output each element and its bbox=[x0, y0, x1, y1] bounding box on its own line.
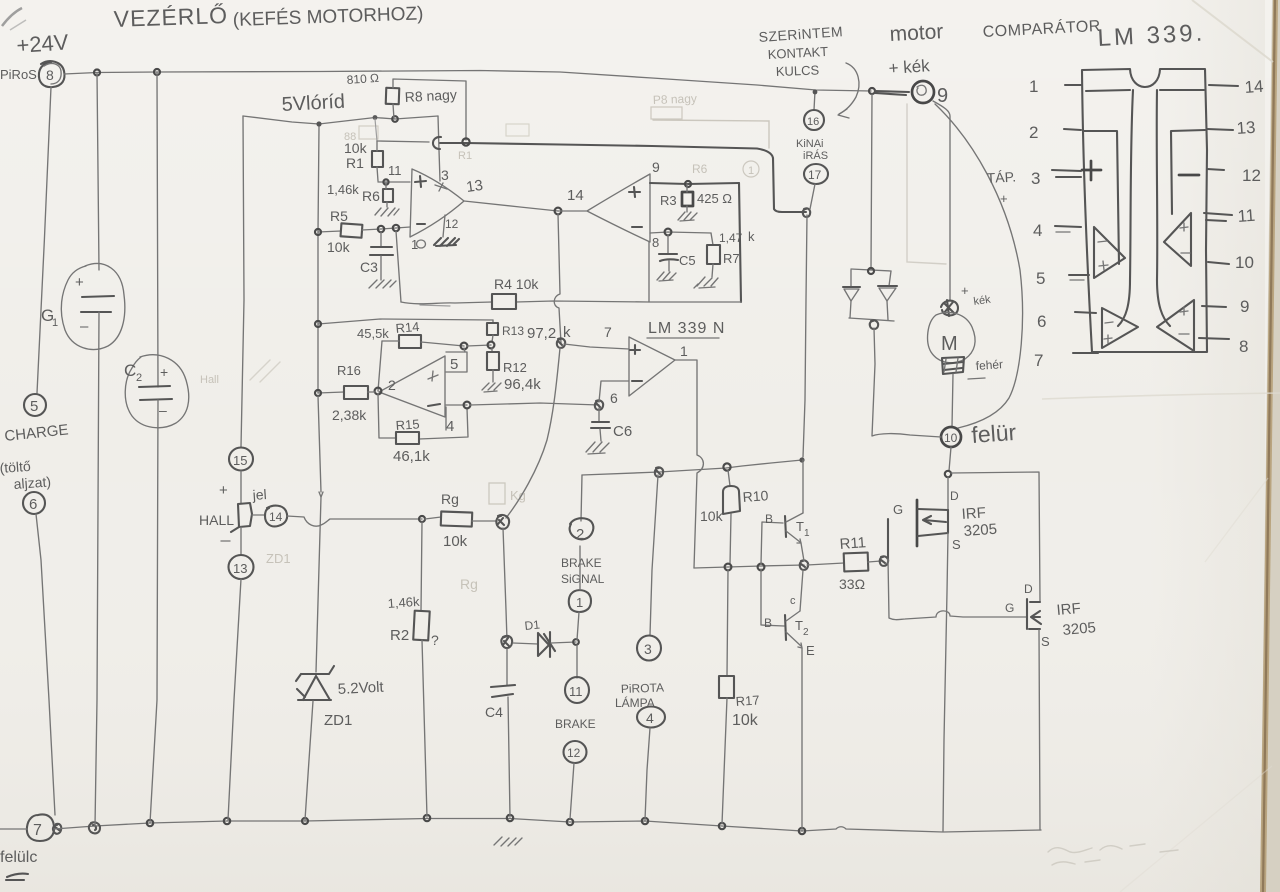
svg-text:2: 2 bbox=[388, 377, 396, 393]
svg-text:3205: 3205 bbox=[1062, 619, 1097, 639]
paper right edge band bbox=[1260, 0, 1280, 892]
pin 8 dash bbox=[1199, 338, 1229, 339]
svg-text:SiGNAL: SiGNAL bbox=[561, 572, 605, 586]
wire terminal 10 down to drain node bbox=[949, 447, 951, 471]
wire R5 to op1 - input bbox=[362, 227, 410, 230]
ground under C4 at bottom rail bbox=[494, 837, 522, 846]
terminal 1 bbox=[569, 590, 591, 612]
wire 5V left edge down to terminal 15 bbox=[241, 116, 244, 447]
resistor R10 bbox=[728, 470, 730, 486]
node R3 top bbox=[685, 181, 691, 187]
IC big minus pin12 bbox=[1179, 174, 1199, 177]
wire key line (heavy) from R1 top to right bbox=[377, 141, 429, 142]
node x318 y324 bbox=[315, 321, 321, 327]
bridge bottom edge bbox=[849, 318, 894, 321]
svg-text:B: B bbox=[764, 616, 772, 630]
svg-text:+: + bbox=[160, 364, 168, 380]
IC inner right column bbox=[1171, 130, 1205, 214]
pin 2 dash bbox=[1064, 129, 1081, 130]
wire y319 rail from x318 to R13 bbox=[318, 319, 493, 324]
node bottom x645 bbox=[642, 818, 648, 824]
svg-text:11: 11 bbox=[388, 163, 402, 178]
wire battery G1 down to bottom rail bbox=[95, 312, 99, 826]
svg-text:810 Ω: 810 Ω bbox=[346, 71, 379, 87]
node blob right of terminal 7 bbox=[53, 824, 61, 834]
terminal 7 bbox=[27, 814, 54, 841]
wire hall signal with dip under x318 bbox=[287, 516, 422, 526]
wire terminal15 to HALL bbox=[240, 471, 242, 503]
svg-text:iRÁS: iRÁS bbox=[803, 149, 828, 162]
MOSFET Q2 body arrow bbox=[1031, 611, 1041, 624]
svg-text:R8 nagy: R8 nagy bbox=[404, 86, 457, 105]
svg-text:14: 14 bbox=[269, 510, 283, 524]
svg-text:PiROTA: PiROTA bbox=[621, 681, 665, 696]
svg-text:14: 14 bbox=[567, 187, 584, 204]
node op1 output bbox=[555, 208, 562, 215]
svg-text:6: 6 bbox=[29, 496, 37, 513]
pin 13 dash bbox=[1207, 129, 1233, 130]
wire op U1c output to C6 node bbox=[446, 404, 467, 406]
wire R2 to bottom rail bbox=[422, 640, 427, 817]
svg-text:+: + bbox=[219, 482, 228, 499]
wire block top edge (pin9 input) bbox=[650, 183, 739, 184]
node bottom x510 bbox=[507, 815, 513, 821]
svg-text:12: 12 bbox=[567, 746, 581, 760]
wire Q1 source down to bottom rail bbox=[943, 533, 948, 831]
svg-text:+: + bbox=[1000, 191, 1008, 206]
svg-text:8: 8 bbox=[652, 235, 659, 250]
resistor R8 bbox=[386, 88, 400, 104]
node y460 x802 bbox=[799, 457, 804, 462]
resistor R4 bbox=[492, 294, 516, 309]
svg-text:33Ω: 33Ω bbox=[839, 576, 865, 592]
MOSFET Q2 source stub bbox=[1029, 628, 1040, 630]
svg-text:R11: R11 bbox=[839, 534, 867, 553]
pin 10 dash bbox=[1208, 262, 1229, 264]
svg-text:+ kék: + kék bbox=[888, 56, 931, 78]
svg-text:8: 8 bbox=[1239, 337, 1248, 356]
svg-text:17: 17 bbox=[808, 168, 822, 182]
svg-text:felülc: felülc bbox=[0, 849, 37, 866]
wire HALL to terminal 14 bbox=[252, 514, 265, 516]
svg-text:10k: 10k bbox=[327, 239, 351, 255]
pin 1 dash bbox=[1065, 84, 1081, 86]
node y472 x659 bbox=[655, 467, 663, 477]
svg-text:LM 339 N: LM 339 N bbox=[648, 320, 725, 337]
IC big plus pin3 bbox=[1082, 161, 1101, 180]
wire terminal1 to D1 node to terminal 11 bbox=[577, 546, 580, 678]
svg-text:4: 4 bbox=[646, 710, 654, 726]
IC inner crossbar right bbox=[1160, 89, 1204, 91]
terminal 14 bbox=[265, 506, 287, 527]
svg-text:G: G bbox=[893, 502, 903, 517]
resistor R11 bbox=[807, 563, 844, 565]
battery C2 outline bbox=[125, 355, 189, 428]
pin4 stub bbox=[445, 407, 447, 430]
diode bridge top edge bbox=[851, 269, 891, 271]
wire Q2 source down to bottom rail corner bbox=[1039, 630, 1040, 830]
node bridge bottom bbox=[870, 320, 878, 329]
svg-text:PiRoS: PiRoS bbox=[0, 67, 37, 82]
battery C2 plates bbox=[139, 386, 170, 387]
transistor T2 base wire bbox=[761, 569, 784, 626]
wire node8 down to terminal 5 bbox=[37, 87, 51, 393]
pin 14 dash bbox=[1209, 85, 1238, 86]
svg-text:3: 3 bbox=[644, 641, 652, 657]
paper creases bbox=[1042, 393, 1280, 399]
IC comparator B triangle bbox=[1102, 308, 1138, 348]
svg-text:46,1k: 46,1k bbox=[393, 448, 430, 465]
wire R15 loop bbox=[378, 394, 468, 439]
svg-text:R6: R6 bbox=[692, 162, 708, 176]
svg-text:Hall: Hall bbox=[200, 374, 219, 386]
pin5 box bbox=[446, 352, 467, 372]
capacitor C4 bbox=[506, 649, 508, 685]
wire R14 loop top bbox=[382, 341, 464, 346]
diode D3 bbox=[878, 285, 897, 287]
ghost handwriting bottom right bbox=[1048, 848, 1092, 853]
wire +24V top rail bbox=[64, 71, 871, 92]
node 5V rail x375 bbox=[373, 115, 378, 120]
svg-text:45,5k: 45,5k bbox=[357, 326, 389, 341]
svg-text:R17: R17 bbox=[735, 692, 760, 709]
ground C5 bbox=[657, 272, 676, 281]
block left edge bbox=[648, 242, 650, 302]
wire R8 top loop to node x466 bbox=[393, 79, 466, 140]
svg-text:C: C bbox=[124, 361, 136, 380]
motor body bbox=[928, 312, 976, 362]
svg-text:R5: R5 bbox=[330, 208, 348, 224]
svg-text:+24V: +24V bbox=[16, 29, 70, 58]
op-amp U1a triangle bbox=[410, 169, 464, 237]
node R14 right / pin5 bbox=[461, 343, 468, 350]
node R13/R12 junction bbox=[488, 342, 495, 349]
node bottom x150 bbox=[147, 820, 153, 826]
node y567 x804 bbox=[800, 560, 808, 570]
IC comparator A triangle bbox=[1094, 227, 1125, 278]
svg-text:R1: R1 bbox=[458, 150, 472, 162]
svg-text:5.2Volt: 5.2Volt bbox=[337, 679, 385, 698]
battery G1 outline bbox=[61, 264, 125, 350]
svg-text:C3: C3 bbox=[360, 259, 378, 275]
svg-text:5: 5 bbox=[450, 356, 458, 373]
wire terminal 9 down to motor bbox=[933, 101, 950, 301]
svg-text:1: 1 bbox=[804, 528, 810, 539]
curved arrow bbox=[839, 63, 859, 114]
svg-text:KONTAKT: KONTAKT bbox=[767, 44, 828, 62]
svg-text:13: 13 bbox=[1236, 118, 1256, 138]
svg-text:5Vlóríd: 5Vlóríd bbox=[281, 91, 345, 116]
pin 7 dash bbox=[1073, 352, 1098, 354]
wire T1 collector up bbox=[802, 460, 804, 513]
wire key node down to T1 collector line bbox=[803, 215, 807, 457]
svg-text:6: 6 bbox=[1037, 312, 1046, 331]
IC body outline bbox=[1082, 69, 1207, 352]
bridge left edge bbox=[850, 270, 851, 318]
node 5V rail x395 (R8 bottom) bbox=[392, 116, 398, 122]
wire drain node right and down (Q2 drain) bbox=[951, 472, 1040, 601]
ghost wire near motor bbox=[907, 104, 946, 264]
resistor R5 bbox=[341, 223, 363, 237]
motor + brush bbox=[941, 300, 958, 316]
ground C3 bbox=[369, 280, 396, 288]
svg-text:KULCS: KULCS bbox=[776, 62, 820, 79]
svg-text:k: k bbox=[748, 229, 755, 244]
wire node to Q1 gate bbox=[887, 559, 889, 561]
ground R12 bbox=[482, 383, 501, 392]
svg-text:1: 1 bbox=[680, 343, 688, 359]
svg-text:R1: R1 bbox=[346, 155, 364, 171]
svg-text:S: S bbox=[952, 537, 961, 552]
paper top-right corner fold bbox=[1192, 0, 1273, 62]
svg-text:1: 1 bbox=[1029, 77, 1038, 96]
svg-text:Rg: Rg bbox=[460, 576, 478, 592]
node bottom x722 bbox=[719, 823, 725, 829]
svg-text:3205: 3205 bbox=[963, 521, 997, 540]
resistor R12 bbox=[491, 348, 493, 352]
svg-text:C5: C5 bbox=[679, 253, 696, 268]
wire rail tick to terminal 16 bbox=[814, 91, 815, 110]
wire op U1d output down with hop bbox=[675, 360, 703, 568]
svg-text:TÁP.: TÁP. bbox=[986, 168, 1016, 186]
op U1c plus sign bbox=[428, 371, 438, 381]
capacitor C3 bbox=[380, 232, 382, 246]
pin 5 dash bbox=[1069, 274, 1089, 276]
node y567 x728 bbox=[725, 564, 732, 571]
svg-text:10k: 10k bbox=[344, 140, 368, 156]
terminal 4 bbox=[637, 707, 665, 728]
terminal 11 bbox=[565, 677, 589, 703]
ground R3 bbox=[678, 212, 697, 221]
svg-text:jel: jel bbox=[251, 486, 267, 503]
svg-text:7: 7 bbox=[1034, 351, 1043, 370]
wire x318 to R5 bbox=[318, 231, 341, 232]
svg-text:T: T bbox=[796, 519, 804, 534]
wire T1 emitter down to node bbox=[801, 543, 804, 561]
svg-text:1: 1 bbox=[52, 317, 58, 329]
svg-text:10k: 10k bbox=[732, 712, 759, 729]
svg-text:12: 12 bbox=[445, 217, 459, 231]
svg-text:12: 12 bbox=[1242, 166, 1261, 185]
HALL sensor box bbox=[231, 503, 252, 532]
hop on key line over 5V vertical bbox=[433, 137, 441, 149]
IC inner left column bbox=[1084, 131, 1119, 264]
node C4/D1 bbox=[501, 636, 512, 648]
svg-text:Rg: Rg bbox=[441, 491, 459, 507]
wire Q1 gate loop down to Q2 gate with hop bbox=[888, 559, 1027, 620]
node C5 top bbox=[665, 229, 672, 236]
resistor R15 bbox=[396, 432, 419, 444]
ghost erased Rg label and box bbox=[489, 483, 505, 504]
wire x872 down to bridge bbox=[871, 94, 872, 269]
op-amp U1c triangle (points left) bbox=[379, 356, 445, 417]
svg-text:–: – bbox=[80, 318, 89, 335]
wire R14 left corner down to op apex bbox=[378, 341, 382, 391]
terminal 17 bbox=[804, 164, 828, 184]
svg-text:4: 4 bbox=[1033, 221, 1042, 240]
wire T2 emitter down to bottom rail bbox=[801, 648, 803, 831]
svg-text:(töltő: (töltő bbox=[0, 458, 31, 476]
svg-text:425 Ω: 425 Ω bbox=[697, 191, 732, 206]
op-amp U1a plus input sign bbox=[415, 176, 426, 187]
svg-text:–: – bbox=[159, 402, 167, 418]
svg-text:8: 8 bbox=[46, 67, 54, 83]
capacitor C6 bbox=[598, 408, 600, 421]
wire terminal17 to key line node bbox=[810, 184, 815, 209]
IC comparator C triangle bbox=[1164, 213, 1191, 266]
svg-text:9: 9 bbox=[1240, 297, 1249, 316]
svg-text:B: B bbox=[765, 512, 773, 526]
node Rg right (big) bbox=[496, 515, 509, 529]
wire brake vertical corner bbox=[581, 475, 582, 521]
ground C6 bbox=[586, 442, 609, 454]
svg-text:3: 3 bbox=[1031, 169, 1040, 188]
node rail x872 bbox=[869, 88, 875, 94]
node output U1c bbox=[464, 402, 471, 409]
terminal 5 bbox=[24, 394, 46, 416]
svg-text:D1: D1 bbox=[524, 617, 541, 633]
resistor R14 bbox=[399, 335, 421, 348]
svg-text:1,47: 1,47 bbox=[719, 231, 743, 245]
svg-text:c: c bbox=[790, 595, 796, 607]
battery G1 plates bbox=[82, 296, 114, 297]
resistor R7 bbox=[711, 233, 713, 245]
capacitor C5 bbox=[667, 235, 669, 253]
ground pin12 bbox=[434, 238, 459, 246]
svg-text:9: 9 bbox=[652, 159, 660, 175]
svg-text:BRAKE: BRAKE bbox=[555, 717, 596, 731]
resistor R1 bbox=[372, 151, 383, 167]
svg-text:R14: R14 bbox=[395, 319, 420, 336]
pin 9 dash bbox=[1202, 306, 1226, 307]
svg-text:11: 11 bbox=[569, 684, 583, 699]
resistor R17 bbox=[719, 676, 734, 698]
wire rail to terminal 9 (bold) bbox=[875, 91, 909, 95]
svg-text:BRAKE: BRAKE bbox=[561, 556, 602, 570]
op U1c minus sign bbox=[428, 404, 440, 406]
svg-text:aljzat): aljzat) bbox=[13, 473, 51, 492]
node C3 top bbox=[378, 226, 384, 232]
diode D2 bbox=[843, 286, 860, 288]
IC center channel lines bbox=[1118, 90, 1133, 326]
svg-text:7: 7 bbox=[33, 822, 42, 839]
wire pin12 to ground bbox=[443, 215, 445, 237]
bridge right edge bbox=[887, 271, 891, 320]
wire vertical x97 from rail to battery G1 bbox=[97, 73, 99, 270]
wire brake row y472 bbox=[582, 460, 802, 475]
svg-text:14: 14 bbox=[1244, 77, 1264, 97]
svg-text:IRF: IRF bbox=[1056, 600, 1082, 619]
node bottom x227 bbox=[224, 818, 230, 824]
terminal 3 bbox=[637, 636, 661, 661]
svg-text:R7: R7 bbox=[723, 251, 740, 266]
resistor R3 bbox=[682, 192, 693, 206]
svg-text:2: 2 bbox=[136, 372, 142, 384]
underline mark bbox=[6, 874, 28, 880]
node key line end x807 bbox=[803, 208, 810, 217]
wire terminal4 to bottom rail bbox=[645, 728, 650, 820]
wire Rg node down to C4 node bbox=[503, 528, 507, 640]
IC comparator D triangle bbox=[1157, 300, 1194, 351]
wire terminal6 down to node 7 bbox=[36, 514, 55, 815]
svg-text:G: G bbox=[1005, 601, 1014, 615]
svg-text:R3: R3 bbox=[660, 193, 677, 208]
node y567 x761 bbox=[758, 564, 765, 571]
resistor R16 bbox=[344, 386, 368, 399]
svg-text:R16: R16 bbox=[337, 363, 361, 378]
resistor Rg bbox=[425, 517, 441, 519]
svg-text:motor: motor bbox=[889, 20, 944, 46]
node op-amp U1c input junction bbox=[375, 388, 382, 395]
svg-text:fehér: fehér bbox=[975, 357, 1003, 373]
svg-text:10: 10 bbox=[944, 431, 958, 445]
svg-text:4: 4 bbox=[446, 418, 454, 435]
wire terminal13 down to bottom rail bbox=[228, 579, 241, 820]
node drain junction bbox=[945, 471, 951, 477]
svg-text:+: + bbox=[75, 274, 84, 291]
wire 5V tap to R1 top bbox=[375, 119, 377, 141]
terminal 13 bbox=[229, 555, 254, 579]
svg-text:T: T bbox=[795, 618, 803, 633]
terminal 15 bbox=[229, 448, 253, 471]
svg-text:R12: R12 bbox=[503, 360, 527, 375]
svg-text:R6: R6 bbox=[362, 188, 380, 204]
svg-text:R13: R13 bbox=[502, 324, 524, 338]
wire to C6 node bbox=[470, 403, 599, 405]
wire y567 row bbox=[694, 565, 804, 568]
op-amp U1b plus sign bbox=[629, 187, 640, 197]
terminal 6 bbox=[23, 492, 45, 514]
wire bottom rail bbox=[0, 819, 1041, 833]
node bottom x802 bbox=[799, 828, 805, 834]
pin 12 dash bbox=[1207, 169, 1224, 170]
svg-text:2: 2 bbox=[803, 627, 809, 638]
svg-text:ZD1: ZD1 bbox=[324, 712, 352, 729]
svg-text:1,46k: 1,46k bbox=[327, 182, 359, 197]
wire R8 bottom to 5V rail bbox=[393, 104, 394, 119]
wire x318 to R16 bbox=[318, 392, 344, 393]
wire x318 vertical upper bbox=[318, 127, 319, 393]
wire op1 output to node x558 bbox=[464, 201, 558, 211]
ground R7 bbox=[694, 277, 718, 288]
MOSFET Q1 source stub bbox=[918, 510, 948, 536]
label minus under hall bbox=[221, 540, 230, 542]
op U1d minus sign bbox=[632, 380, 642, 382]
svg-text:?: ? bbox=[431, 632, 439, 648]
svg-text:10: 10 bbox=[1235, 253, 1254, 272]
svg-text:3: 3 bbox=[441, 167, 449, 183]
wire battery C2 down to bottom rail bbox=[150, 400, 158, 823]
node bottom x95 bbox=[89, 822, 100, 833]
MOSFET Q2 gate bar bbox=[1026, 599, 1028, 629]
op-amp U1b minus sign bbox=[632, 226, 642, 228]
resistor R6 bbox=[383, 189, 393, 202]
node x396 bbox=[393, 225, 399, 231]
wire R17 from node x728 bbox=[727, 570, 728, 676]
svg-text:10k: 10k bbox=[443, 533, 468, 550]
ground R6 bbox=[375, 208, 399, 216]
svg-text:M: M bbox=[941, 333, 958, 355]
node key line x466 bbox=[462, 138, 469, 145]
svg-text:2: 2 bbox=[576, 526, 584, 543]
svg-text:felür: felür bbox=[971, 419, 1018, 448]
ghost erased marks upper middle bbox=[506, 124, 529, 136]
svg-text:ZD1: ZD1 bbox=[266, 551, 291, 566]
pin 4 dash bbox=[1055, 226, 1081, 227]
node y472 x726 bbox=[723, 463, 730, 470]
MOSFET Q1 channel bar bbox=[916, 500, 919, 546]
wire node x659 down to terminal 3 bbox=[650, 475, 658, 635]
